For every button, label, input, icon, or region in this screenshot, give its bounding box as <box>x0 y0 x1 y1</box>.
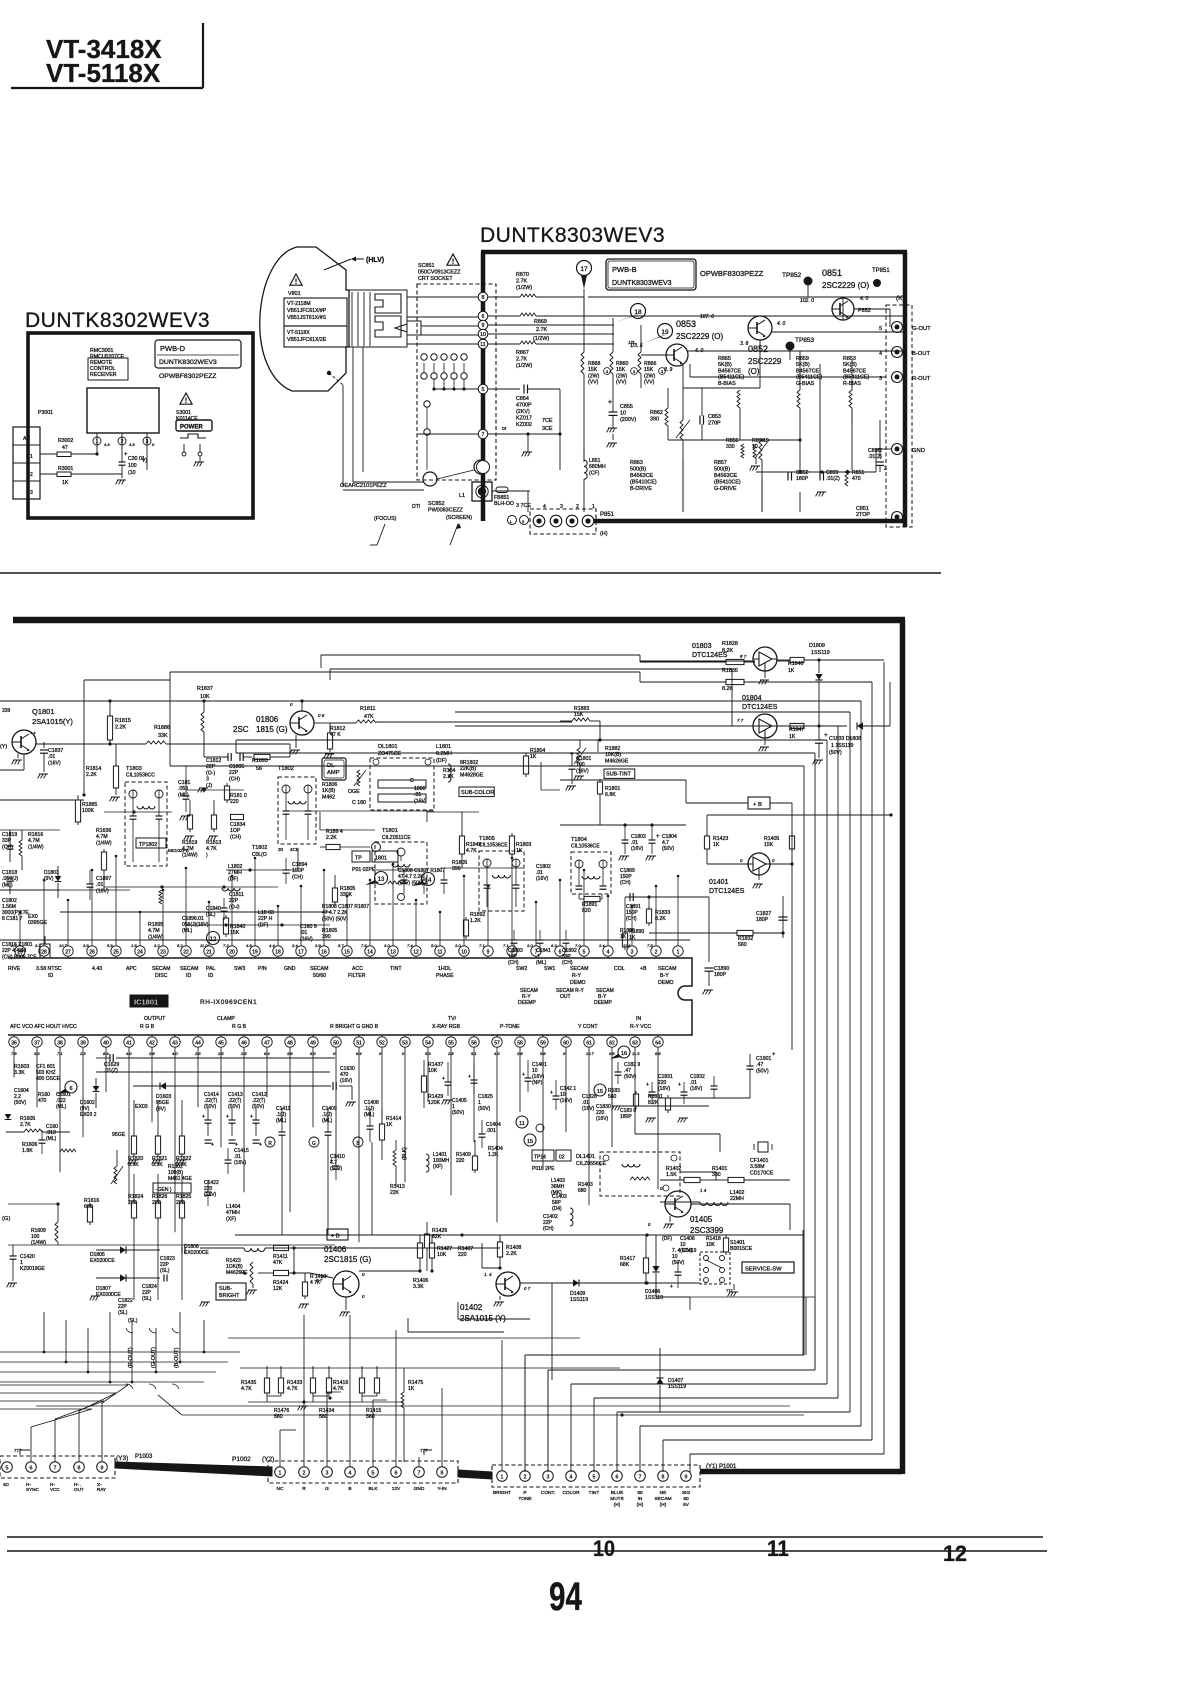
P1002 pin 4 B <box>345 1467 356 1478</box>
svg-text:CRT SOCKET: CRT SOCKET <box>418 276 453 282</box>
ground Q1405 <box>669 1216 671 1222</box>
svg-text:COL: COL <box>614 966 625 972</box>
transistor Q852 wires <box>772 331 905 333</box>
svg-text:(O): (O) <box>748 367 760 376</box>
wire pin7 row <box>488 433 560 435</box>
svg-text:(O-0: (O-0 <box>229 904 239 910</box>
svg-text:TP852: TP852 <box>782 272 802 279</box>
svg-text:1815 (G): 1815 (G) <box>256 725 288 734</box>
bus wire R1835 row <box>170 671 640 673</box>
svg-text:C 180: C 180 <box>352 800 366 806</box>
svg-text:R1892: R1892 <box>470 912 485 918</box>
svg-text:1K: 1K <box>789 734 796 740</box>
bus wire row4 <box>0 700 861 702</box>
svg-text:2SC: 2SC <box>233 725 249 734</box>
svg-text:1: 1 <box>677 949 680 955</box>
svg-text:.01(Z): .01(Z) <box>104 1068 118 1074</box>
left components symbols <box>19 840 22 856</box>
wire long y1415 <box>182 1414 804 1416</box>
svg-text:(50V): (50V) <box>478 1106 491 1112</box>
wire band stub e <box>103 873 105 890</box>
wire +B vertical <box>791 803 793 1050</box>
svg-text:8 C181 7: 8 C181 7 <box>2 916 23 922</box>
svg-text:M462: M462 <box>322 794 335 800</box>
svg-text:(CH): (CH) <box>292 874 303 880</box>
svg-text:R1805: R1805 <box>452 860 467 866</box>
svg-text:12: 12 <box>943 1541 967 1566</box>
P1002 pin 5 BLK <box>368 1467 379 1478</box>
svg-text:BRIGHT: BRIGHT <box>219 1293 240 1299</box>
svg-text:2SA1015 (Y): 2SA1015 (Y) <box>460 1314 506 1323</box>
svg-text:(50V): (50V) <box>756 1068 769 1074</box>
cap cluster symbols <box>615 1071 622 1073</box>
svg-text:01405: 01405 <box>690 1215 713 1224</box>
svg-text:20: 20 <box>229 949 235 955</box>
wire band h887 <box>104 886 278 888</box>
svg-text:VB51JFC61X/2E: VB51JFC61X/2E <box>287 337 327 343</box>
svg-text:SECAM: SECAM <box>658 966 676 972</box>
bus wire row3 <box>84 679 170 681</box>
svg-text:680: 680 <box>84 1204 93 1210</box>
svg-text:(9V): (9V) <box>156 1106 166 1112</box>
svg-text:R853: R853 <box>843 356 856 362</box>
svg-text:10: 10 <box>620 411 626 417</box>
svg-text:CILZ0511CE: CILZ0511CE <box>382 835 411 841</box>
svg-text:1K: 1K <box>620 934 627 940</box>
wires neck to board pins <box>407 296 479 298</box>
bus wire vertical 3 <box>860 701 862 1426</box>
svg-text:15: 15 <box>597 1089 603 1095</box>
ground C3001 <box>116 480 118 484</box>
svg-text:C854: C854 <box>516 396 529 402</box>
main board thick border right <box>900 620 906 1474</box>
bus wire vertical 2 <box>871 682 873 1440</box>
resistor R1828 <box>639 655 641 662</box>
svg-text:S1401: S1401 <box>730 1240 745 1246</box>
svg-text:(B5411CE): (B5411CE) <box>843 375 869 381</box>
svg-text:9: 9 <box>101 1466 104 1472</box>
IC1801 top pin row and riser wires <box>15 946 25 956</box>
P1003 pin 8 <box>74 1462 85 1473</box>
svg-text:G-OUT: G-OUT <box>912 326 931 332</box>
svg-text:7 7: 7 7 <box>737 718 744 723</box>
svg-text:1: 1 <box>96 439 99 445</box>
svg-text:(XF): (XF) <box>433 1164 443 1170</box>
wire long mid row <box>83 680 85 795</box>
bus wire R1828 row <box>321 654 640 656</box>
svg-text:7.1: 7.1 <box>503 943 509 948</box>
wire Q1402 bottom loop <box>458 1302 530 1319</box>
svg-text:P010 2PE: P010 2PE <box>532 1166 555 1172</box>
svg-text:1.8: 1.8 <box>131 943 137 948</box>
harness wedge P1002-P1001 <box>458 1470 492 1479</box>
svg-text:470: 470 <box>38 1098 47 1104</box>
svg-text:D1406: D1406 <box>645 1289 660 1295</box>
svg-text:3.0: 3.0 <box>384 943 390 948</box>
svg-text:(ML): (ML) <box>46 1136 57 1142</box>
svg-text:B-DRIVE: B-DRIVE <box>630 486 652 492</box>
svg-text:8R1802: 8R1802 <box>460 760 478 766</box>
svg-text:TONE: TONE <box>518 1496 531 1502</box>
svg-text:C181: C181 <box>178 780 191 786</box>
svg-text:(16V): (16V) <box>300 936 313 942</box>
svg-text:SERVICE-SW: SERVICE-SW <box>745 1267 782 1273</box>
svg-text:R1808 C1807 R1807: R1808 C1807 R1807 <box>322 904 369 910</box>
CRT socket focus unit box <box>472 482 492 501</box>
board outline bottom bus <box>594 519 907 524</box>
socket wires vertical <box>423 363 425 373</box>
svg-text:ID: ID <box>186 973 191 979</box>
svg-text:AC: AC <box>23 436 30 442</box>
P1001 pin 6 BLUE <box>612 1471 623 1482</box>
svg-text:3.4: 3.4 <box>599 943 605 948</box>
svg-text:8.2K: 8.2K <box>655 916 666 922</box>
svg-text:DTC124ES: DTC124ES <box>692 652 728 659</box>
svg-text:IN: IN <box>638 1496 643 1502</box>
svg-text:P: P <box>523 1490 526 1496</box>
svg-text:SYNC: SYNC <box>26 1487 39 1492</box>
svg-text:49: 49 <box>310 1040 316 1046</box>
svg-text:B0015CE: B0015CE <box>730 1246 753 1252</box>
svg-text:1. 4: 1. 4 <box>484 1272 492 1277</box>
svg-text:R1833: R1833 <box>655 910 670 916</box>
P1002 pin 8 Y-IN <box>437 1467 448 1478</box>
svg-text:SECAM: SECAM <box>180 966 198 972</box>
svg-text:6.8K: 6.8K <box>605 792 616 798</box>
svg-text:L851: L851 <box>589 458 601 464</box>
svg-text:GND: GND <box>912 448 925 454</box>
svg-text:(B5410CE): (B5410CE) <box>630 480 657 486</box>
svg-text:ID: ID <box>208 973 213 979</box>
flag 16 <box>618 1046 630 1058</box>
svg-text:4.7M: 4.7M <box>148 928 160 934</box>
svg-text:777: 777 <box>726 1288 733 1293</box>
svg-text:(SCREEN): (SCREEN) <box>446 515 472 521</box>
svg-text:DL1801: DL1801 <box>378 744 398 750</box>
svg-text:SW2: SW2 <box>516 966 527 972</box>
svg-text:EX0200CE: EX0200CE <box>90 1258 115 1264</box>
svg-text:R184: R184 <box>443 768 456 774</box>
svg-text:16: 16 <box>321 949 327 955</box>
svg-text:7: 7 <box>482 432 485 438</box>
P1002 pin 6 12V <box>391 1467 402 1478</box>
junction circle DY1 <box>423 472 437 486</box>
svg-text:10: 10 <box>480 332 486 338</box>
svg-text:ID: ID <box>48 973 53 979</box>
svg-text:54: 54 <box>425 1040 431 1046</box>
svg-text:6: 6 <box>559 949 562 955</box>
ground D1807 <box>90 1296 92 1300</box>
svg-text:R1828: R1828 <box>722 641 738 647</box>
svg-text:R1437: R1437 <box>428 1062 443 1068</box>
ground C855 <box>607 428 609 432</box>
svg-text:15K: 15K <box>588 367 598 373</box>
wire DL1401 out <box>680 1171 716 1173</box>
svg-text:2.2K: 2.2K <box>86 772 97 778</box>
svg-text:500(B): 500(B) <box>714 467 730 473</box>
svg-text:PW0083CEZZ: PW0083CEZZ <box>428 508 463 514</box>
svg-text:1K: 1K <box>530 754 537 760</box>
svg-text:COLOR: COLOR <box>562 1490 580 1496</box>
svg-text:C1901: C1901 <box>756 1056 771 1062</box>
svg-text:M461 4GE: M461 4GE <box>168 1176 193 1182</box>
svg-text:TP1802: TP1802 <box>139 842 157 848</box>
wire R862 links <box>667 388 669 408</box>
svg-text:9: 9 <box>487 949 490 955</box>
trimmer R1806 <box>357 770 360 786</box>
svg-text:56: 56 <box>256 766 262 772</box>
svg-text:OUTPUT: OUTPUT <box>144 1016 166 1022</box>
connector P1002 dashed box <box>268 1461 458 1483</box>
svg-text:2: 2 <box>303 1471 306 1477</box>
svg-text:5K(B): 5K(B) <box>718 362 732 368</box>
svg-text:22P H: 22P H <box>258 916 273 922</box>
svg-text:5: 5 <box>482 387 485 393</box>
svg-text:B-Y: B-Y <box>660 973 669 979</box>
svg-text:56: 56 <box>471 1040 477 1046</box>
svg-text:B4567CE: B4567CE <box>843 368 866 374</box>
svg-text:100K: 100K <box>82 808 95 814</box>
wire band h5 <box>320 829 375 831</box>
svg-text:15K: 15K <box>644 367 654 373</box>
wire cluster bottoms <box>267 1395 281 1397</box>
svg-text:R1814: R1814 <box>86 766 101 772</box>
wire service loop <box>805 1297 807 1355</box>
svg-text:1.2K: 1.2K <box>470 918 481 924</box>
svg-text:C1837: C1837 <box>48 748 63 754</box>
svg-text:15K: 15K <box>230 930 240 936</box>
svg-text:DUNTK8302WEV3: DUNTK8302WEV3 <box>159 359 217 366</box>
svg-text:R1837: R1837 <box>197 686 213 692</box>
svg-text:PWB-B: PWB-B <box>612 265 637 274</box>
svg-text:(16V): (16V) <box>96 888 109 894</box>
CRT neck outline <box>349 290 407 347</box>
wire band row c <box>0 889 60 891</box>
svg-text:20: 20 <box>278 847 284 852</box>
svg-text:R1805: R1805 <box>340 886 355 892</box>
svg-text:L1404: L1404 <box>226 1204 241 1210</box>
wire Q1806 collector <box>301 701 303 711</box>
label PWB-D DUNTK8302WEV3 <box>155 340 241 368</box>
svg-text:NE: NE <box>660 1490 667 1496</box>
svg-text:(MK): (MK) <box>551 1190 562 1196</box>
svg-text:10K: 10K <box>437 1252 447 1258</box>
svg-text:SUB-: SUB- <box>219 1286 232 1292</box>
resistor R1815 2.2K <box>109 713 111 716</box>
svg-text:C1812: C1812 <box>206 758 221 764</box>
svg-text:1801: 1801 <box>375 856 387 862</box>
wire +B feed <box>560 779 686 781</box>
svg-text:VB51JST61X/#S: VB51JST61X/#S <box>287 315 326 321</box>
svg-text:+: + <box>330 1158 333 1164</box>
svg-text:5: 5 <box>372 1471 375 1477</box>
svg-text:2: 2 <box>655 949 658 955</box>
svg-text:+: + <box>259 1142 262 1148</box>
svg-text:1K: 1K <box>629 935 636 941</box>
svg-text:R1816: R1816 <box>28 832 43 838</box>
svg-text:SC851: SC851 <box>418 263 434 269</box>
svg-text:R869: R869 <box>534 319 547 325</box>
ground near C854 <box>527 440 529 452</box>
svg-text:(D4): (D4) <box>552 1206 562 1212</box>
svg-text:3.9K: 3.9K <box>128 1162 139 1168</box>
svg-text:12: 12 <box>210 937 217 943</box>
series caps on base wire <box>227 753 229 761</box>
svg-text:TP851: TP851 <box>872 268 890 274</box>
svg-text:1: 1 <box>279 1471 282 1477</box>
ground Q1402 <box>499 1296 501 1300</box>
svg-text:P-TONE: P-TONE <box>500 1024 520 1030</box>
svg-text:CIL10536CC: CIL10536CC <box>126 773 155 779</box>
svg-text:7.6: 7.6 <box>361 943 367 948</box>
preset R857 <box>759 440 762 460</box>
svg-text:7.2: 7.2 <box>223 943 229 948</box>
svg-text:120K: 120K <box>428 1100 441 1106</box>
svg-text:P1002: P1002 <box>232 1456 251 1463</box>
svg-text:VT-2118M: VT-2118M <box>287 301 311 307</box>
svg-text:R1402: R1402 <box>666 1166 681 1172</box>
svg-text:41: 41 <box>126 1040 132 1046</box>
svg-text:ZO475CE: ZO475CE <box>378 751 402 757</box>
warning triangle V801 <box>290 274 302 285</box>
CRT type label box 1 <box>284 298 347 326</box>
ground Q1803 <box>764 671 766 678</box>
pin 3 <box>143 437 151 445</box>
svg-text:+: + <box>824 732 828 739</box>
transistor Q1806 <box>290 711 314 735</box>
svg-text:3.2: 3.2 <box>154 943 160 948</box>
svg-text:3.8: 3.8 <box>83 943 89 948</box>
svg-text:180P: 180P <box>620 1114 632 1120</box>
socket pin circles row1 <box>421 354 427 360</box>
svg-text:37: 37 <box>34 1040 40 1046</box>
svg-text:AMP: AMP <box>327 770 340 776</box>
svg-text:C: C <box>410 778 414 784</box>
svg-text:2SC2229 (O): 2SC2229 (O) <box>822 281 869 290</box>
svg-text:5.0: 5.0 <box>431 943 437 948</box>
svg-text:Q1801: Q1801 <box>32 707 55 716</box>
svg-text:2.2K: 2.2K <box>326 835 337 841</box>
vertical wires from neck down <box>352 347 354 482</box>
svg-text:BRIGHT: BRIGHT <box>493 1490 511 1496</box>
svg-text:R-OUT: R-OUT <box>912 376 931 382</box>
svg-text:): ) <box>206 852 208 858</box>
transistor Q853 wires <box>641 354 666 356</box>
svg-text:(16V): (16V) <box>560 1098 573 1104</box>
svg-text:.001: .001 <box>486 1128 496 1134</box>
svg-text:1 4: 1 4 <box>700 1188 707 1193</box>
svg-text:2: 2 <box>121 439 124 445</box>
svg-text:R-Y VCC: R-Y VCC <box>630 1024 651 1030</box>
svg-text:KZ002: KZ002 <box>516 422 532 428</box>
svg-text:0851: 0851 <box>822 268 842 278</box>
resistor R851 470 <box>845 470 848 486</box>
svg-text:EX0200CE: EX0200CE <box>184 1250 209 1256</box>
svg-text:4 7K: 4 7K <box>310 1280 321 1286</box>
wire band row b <box>0 799 84 801</box>
svg-text:R1427: R1427 <box>437 1246 452 1252</box>
svg-text:+: + <box>670 1284 673 1290</box>
svg-text:0 6: 0 6 <box>318 713 325 718</box>
svg-text:4. 0: 4. 0 <box>777 321 786 327</box>
socket pin single b <box>424 429 430 435</box>
svg-text:(1/4W): (1/4W) <box>148 934 164 940</box>
svg-text:C1827: C1827 <box>756 911 771 917</box>
svg-text:SW3: SW3 <box>234 966 245 972</box>
svg-text:(16V): (16V) <box>596 1116 609 1122</box>
svg-text:8: 8 <box>78 1466 81 1472</box>
svg-text:(NP): (NP) <box>532 1080 543 1086</box>
svg-text:R1886: R1886 <box>154 725 170 731</box>
svg-text:4: 4 <box>543 504 546 510</box>
svg-text:64: 64 <box>655 1040 661 1046</box>
svg-text:4.7K: 4.7K <box>333 1386 344 1392</box>
svg-text:(XF): (XF) <box>226 1216 236 1222</box>
svg-text:22MH: 22MH <box>730 1196 744 1202</box>
ground R1814 <box>115 791 117 795</box>
svg-text:8.2K: 8.2K <box>648 1100 659 1106</box>
svg-text:1.8K: 1.8K <box>22 1148 33 1154</box>
svg-text:+: + <box>124 452 128 458</box>
svg-text:SUB-TINT: SUB-TINT <box>606 772 632 778</box>
circle jack <box>372 843 381 852</box>
svg-text:(B-OUT): (B-OUT) <box>174 1347 180 1368</box>
svg-text:L1801: L1801 <box>436 744 451 750</box>
svg-text:777: 777 <box>14 1448 22 1453</box>
transistor Q1402 <box>496 1272 520 1296</box>
svg-text:45: 45 <box>218 1040 224 1046</box>
wire vertical C854 <box>559 389 561 434</box>
svg-text:SECAM: SECAM <box>654 1496 671 1502</box>
transistor Q851 <box>832 298 854 320</box>
svg-text:C1894: C1894 <box>292 862 307 868</box>
svg-text:(50V): (50V) <box>829 750 842 756</box>
svg-text:(SL): (SL) <box>128 1318 138 1324</box>
svg-text:R1415: R1415 <box>366 1408 381 1414</box>
svg-text:(50V): (50V) <box>452 1110 465 1116</box>
wire band stub c <box>597 740 599 752</box>
svg-text:2.2K: 2.2K <box>506 1251 517 1257</box>
svg-text:SUB-COLOR: SUB-COLOR <box>461 790 494 796</box>
svg-text:G-DRIVE: G-DRIVE <box>714 486 737 492</box>
svg-text:L18 03: L18 03 <box>258 910 274 916</box>
svg-text:KZ017: KZ017 <box>516 416 532 422</box>
svg-text:1K: 1K <box>713 842 720 848</box>
small L circles <box>508 516 517 525</box>
svg-text:7.5: 7.5 <box>647 943 653 948</box>
svg-text:2: 2 <box>30 472 33 478</box>
svg-text:+: + <box>211 1142 214 1148</box>
wire Q1402 emitter row <box>520 1282 700 1284</box>
svg-text:R1605: R1605 <box>20 1116 35 1122</box>
svg-text:(O-): (O-) <box>206 770 215 776</box>
svg-text:(Y1) P1001: (Y1) P1001 <box>706 1464 737 1470</box>
resistor R866 15K <box>640 325 642 352</box>
svg-text:SECAM: SECAM <box>570 966 588 972</box>
svg-text:4: 4 <box>349 1471 352 1477</box>
svg-text:4.4: 4.4 <box>269 943 275 948</box>
svg-text:47MH: 47MH <box>226 1210 240 1216</box>
bottom rule 2 <box>7 1550 1047 1552</box>
wire C853 links <box>701 388 703 416</box>
bus wire row5 <box>455 711 850 713</box>
svg-text:MUTE: MUTE <box>610 1496 624 1502</box>
wire Q1801 emitter row <box>36 743 108 745</box>
junction dot bus <box>620 1413 623 1416</box>
svg-text:4: 4 <box>570 1475 573 1481</box>
svg-text:680MH: 680MH <box>589 464 606 470</box>
svg-text:1K(B): 1K(B) <box>322 788 336 794</box>
